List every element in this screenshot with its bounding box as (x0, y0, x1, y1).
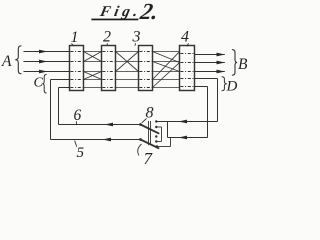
svg-text:6: 6 (74, 107, 82, 124)
wire D2 vertical (207, 87, 209, 138)
figure title Fig.2. (91, 0, 160, 25)
svg-text:7: 7 (144, 149, 154, 167)
svg-text:Fig.: Fig. (98, 3, 144, 20)
switch blade lower (141, 140, 159, 149)
brace for C (42, 75, 46, 94)
switch fixed contacts (155, 120, 158, 147)
svg-text:C: C (34, 76, 44, 91)
box 3 (139, 46, 153, 91)
wire C2 vertical (58, 88, 60, 125)
box 2 internal dashed conductors (102, 52, 114, 88)
wire D1 horizontal (195, 78, 218, 80)
svg-text:B: B (238, 56, 248, 73)
brace for A (15, 46, 21, 74)
svg-text:D: D (226, 79, 238, 95)
box 4 internal dashed conductors (180, 54, 193, 87)
svg-text:3: 3 (132, 29, 141, 46)
wire switch to D2 rail lower (168, 136, 208, 140)
box 3 internal dashed conductors (139, 52, 151, 88)
wire crossing stage 3 to 4 (153, 52, 180, 88)
wire A input 2 (24, 60, 70, 64)
wire C1 horizontal (51, 79, 70, 81)
label 1 (71, 29, 79, 46)
brace for B (232, 50, 237, 76)
wire C1 vertical (50, 80, 52, 140)
switch pivot contact upper (139, 123, 142, 126)
wire crossover vertical (167, 122, 169, 138)
switch gang link (149, 121, 151, 145)
wire crossing stage 1 to 2 (84, 52, 102, 88)
wire D1 vertical (217, 79, 219, 122)
wire contact jumper (156, 127, 161, 142)
label 6 (74, 107, 82, 124)
label 5 (75, 141, 85, 162)
wire A input 3 (24, 70, 70, 74)
box 1 internal dashed conductors (70, 52, 82, 88)
wire return rail 6 (59, 123, 141, 127)
wire C2 horizontal (59, 87, 70, 89)
label 2 (103, 29, 111, 46)
box 4 (180, 46, 195, 91)
wire crossing stage 2 to 3 (116, 52, 139, 88)
wire B output 1 (195, 53, 226, 57)
wire D2 horizontal (195, 86, 208, 88)
label 4 (181, 29, 189, 47)
label 8 (142, 105, 154, 123)
wire switch to D1 rail upper (156, 120, 217, 124)
wire return rail 5 (51, 138, 141, 142)
wire B output 3 (195, 70, 226, 74)
brace for D (222, 77, 227, 91)
svg-text:4: 4 (181, 29, 189, 46)
wire B output 2 (195, 61, 226, 65)
box 2 (102, 46, 116, 91)
svg-text:A: A (1, 53, 12, 70)
svg-text:5: 5 (77, 145, 85, 161)
wire contact to lower rail (157, 138, 171, 147)
svg-text:8: 8 (146, 105, 154, 122)
label 7 (138, 144, 154, 168)
wire A input 1 (24, 50, 70, 54)
label 3 (132, 29, 141, 46)
switch pivot contact lower (139, 138, 142, 141)
switch blade upper (141, 125, 159, 134)
svg-text:2: 2 (103, 29, 111, 46)
box 1 (70, 46, 84, 91)
